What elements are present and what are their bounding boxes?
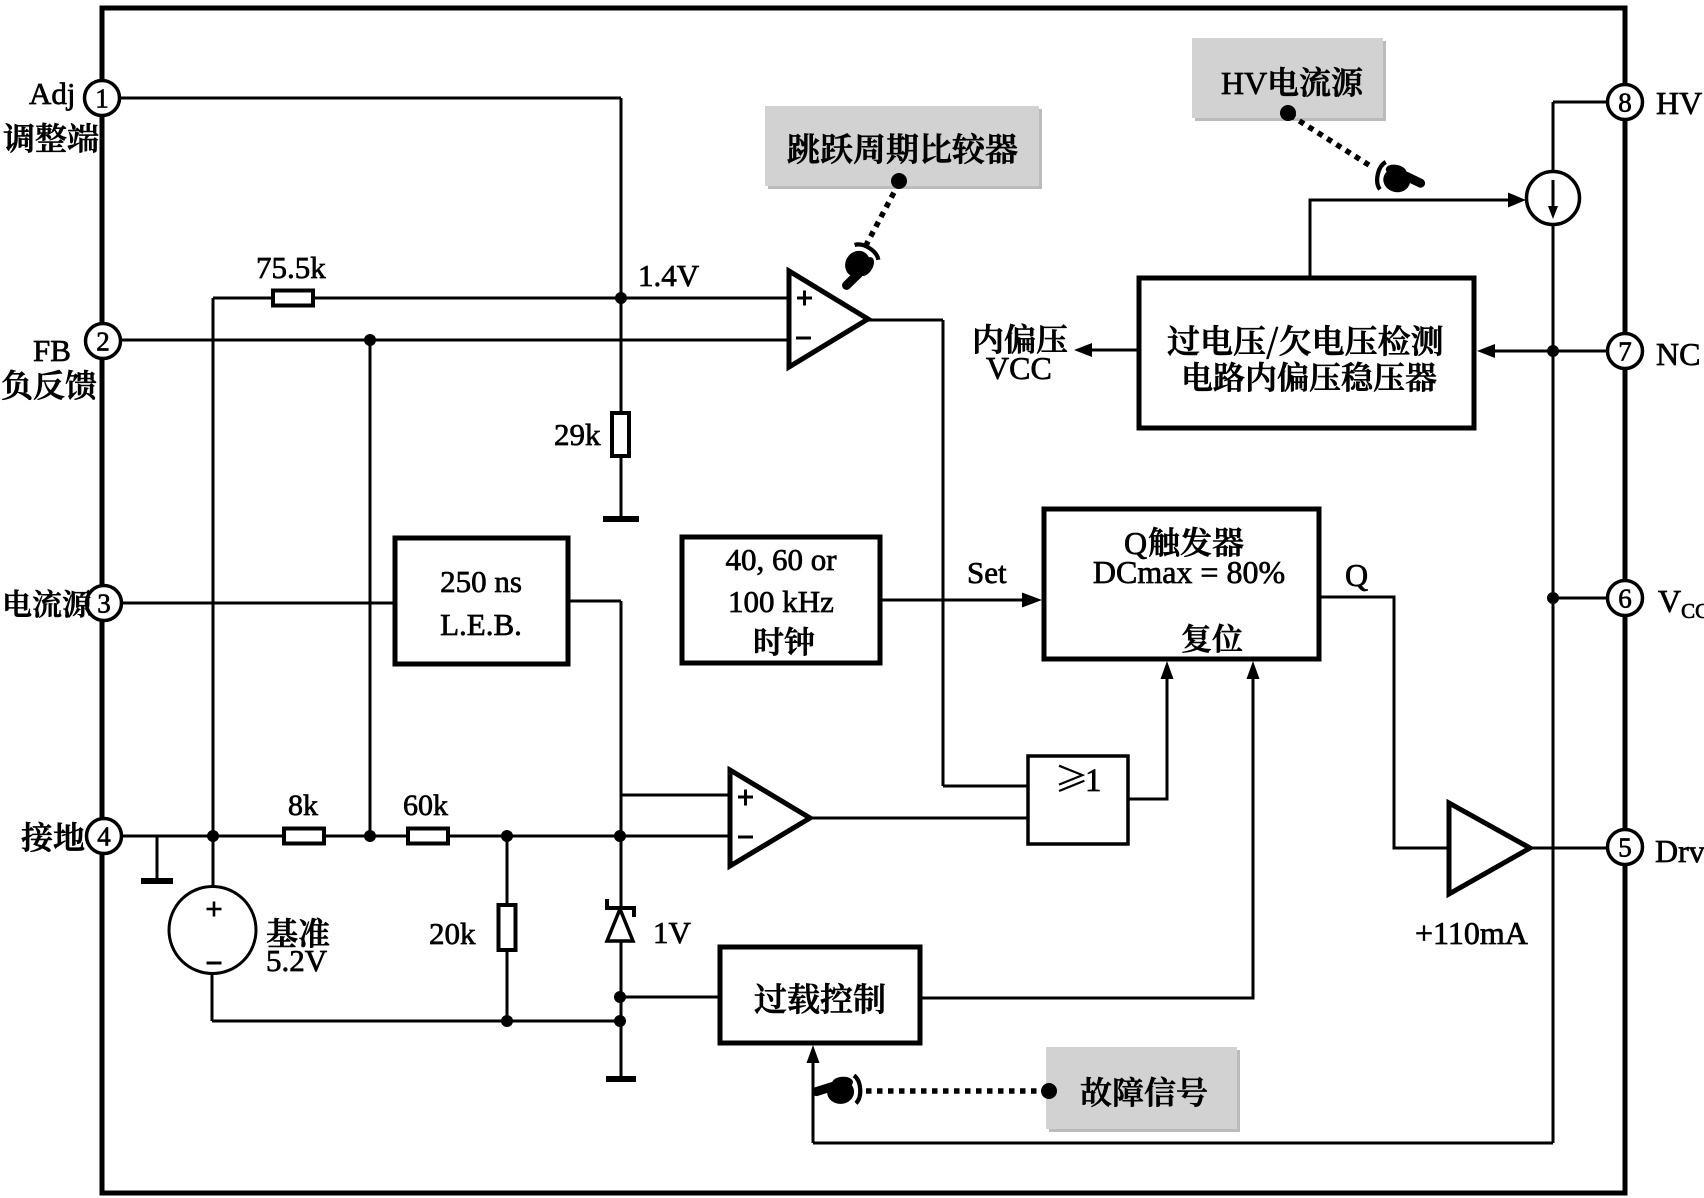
wire pin2 FB to comparator inverting input — [120, 339, 789, 342]
resistor 75.5k — [273, 291, 313, 306]
wire 1.4V node down to 29k resistor — [620, 298, 623, 413]
wire pin1 Adj to top-right corner — [120, 97, 621, 100]
svg-text:250 ns: 250 ns — [440, 564, 522, 599]
svg-text:75.5k: 75.5k — [256, 250, 326, 285]
wire lower comparator output to OR gate — [810, 817, 1028, 820]
svg-text:8k: 8k — [288, 789, 318, 822]
wire latch Q output to driver — [1319, 597, 1449, 848]
label 内偏压 — [975, 324, 1067, 354]
svg-text:DCmax = 80%: DCmax = 80% — [1093, 554, 1285, 590]
junction 20k bottom rail — [501, 1015, 513, 1027]
pin 2 FB — [86, 324, 121, 359]
wire pin4 ground stub — [156, 836, 159, 878]
hand icon pointing at HV current source — [1375, 161, 1424, 197]
junction 8k-60k node — [364, 830, 376, 842]
ground at pin4 — [156, 870, 159, 881]
wire bottom rail from 5.2V source to zener branch — [212, 1020, 621, 1023]
wire driver output to pin5 Drv — [1530, 847, 1607, 850]
label 调整端 — [4, 123, 98, 153]
junction 60k/20k node — [501, 830, 513, 842]
arrowhead Set into latch — [1022, 593, 1042, 608]
current source HV (circle with down arrow) — [1527, 172, 1580, 225]
block overload control 过载控制 — [720, 947, 920, 1043]
arrowhead into HV current source — [1508, 193, 1526, 208]
callout box 跳跃周期比较器 — [768, 109, 1042, 189]
wire zener anode down to ground — [620, 941, 623, 1076]
svg-text:3: 3 — [97, 589, 111, 619]
wire 29k resistor to ground — [620, 456, 623, 517]
svg-text:60k: 60k — [403, 789, 448, 822]
wire node to 20k resistor — [506, 836, 509, 905]
wire to lower comparator non-inverting input — [621, 794, 730, 797]
arrowhead into OVP block right side — [1477, 344, 1495, 358]
callout dotted leader to HV current source — [1290, 115, 1372, 167]
svg-text:100 kHz: 100 kHz — [728, 584, 834, 619]
svg-text:VCC: VCC — [986, 350, 1052, 386]
wire vertical x621 L.E.B. output down to zener — [620, 601, 623, 906]
label 触发器 (flip-flop) — [1149, 527, 1243, 557]
wire fault signal line — [813, 1142, 1553, 1145]
svg-text:1.4V: 1.4V — [638, 258, 700, 293]
label 过电压/欠电压检测 — [1168, 325, 1442, 359]
wire vertical pin1 down to 1.4V node — [620, 98, 623, 298]
wire overload-control output up to latch reset — [920, 676, 1253, 998]
svg-text:Q: Q — [1345, 557, 1368, 593]
junction CS sense node at zener — [614, 830, 626, 842]
wire clock Set signal to latch — [880, 599, 1025, 602]
svg-text:40, 60 or: 40, 60 or — [725, 542, 837, 577]
hand icon pointing at fault arrow — [816, 1075, 862, 1106]
label 电路内偏压稳压器 — [1185, 362, 1437, 392]
wire pin4 row through 8k resistor — [121, 835, 324, 838]
hand icon pointing at skip comparator — [834, 241, 881, 293]
callout dot 跳跃周期比较器 — [891, 173, 907, 189]
resistor 29k — [612, 413, 629, 456]
OR gate >=1 — [1028, 756, 1128, 844]
voltage source 5.2V reference — [169, 887, 256, 974]
svg-text:4: 4 — [97, 822, 111, 852]
arrowhead overload output into latch reset — [1247, 661, 1260, 679]
block 250ns L.E.B. — [395, 538, 568, 664]
wire pin8 down to HV current source — [1552, 102, 1555, 172]
arrowhead internal bias VCC — [1074, 343, 1092, 357]
callout box HV电流源 — [1195, 41, 1386, 121]
svg-text:29k: 29k — [554, 417, 601, 452]
svg-text:L.E.B.: L.E.B. — [440, 607, 522, 642]
block Q latch DCmax=80% — [1044, 509, 1319, 659]
svg-text:1: 1 — [95, 84, 109, 114]
driver amplifier +110mA — [1449, 803, 1530, 894]
junction node 1.4V — [615, 292, 627, 304]
svg-text:HV: HV — [1221, 65, 1267, 101]
wire into OR gate upper input — [943, 785, 1028, 788]
svg-text:5.2V: 5.2V — [266, 943, 328, 978]
wire 1.4V node to comparator non-inverting input — [621, 297, 789, 300]
wire skip comparator output — [868, 319, 943, 322]
svg-text:HV: HV — [1656, 85, 1702, 121]
pin 5 Drv — [1608, 830, 1643, 865]
wire vertical from FB node down to 8k/60k node — [369, 340, 372, 836]
wire Vcc rail to pin6 — [1553, 597, 1607, 600]
callout dot HV电流源 — [1280, 105, 1296, 121]
label 电流源 pin3 — [5, 589, 91, 617]
ground below zener — [620, 1070, 623, 1079]
svg-text:Adj: Adj — [29, 76, 76, 111]
label 时钟 (clock) — [755, 627, 814, 656]
junction left rail / 8k — [207, 830, 219, 842]
svg-text:2: 2 — [96, 327, 110, 357]
arrowhead fault signal into overload control — [807, 1045, 820, 1063]
ground below 29k — [620, 456, 623, 519]
wire pin8 HV stub — [1553, 101, 1607, 104]
wire OR gate output up to latch reset — [1128, 676, 1167, 799]
wire 8k to 60k to lower comparator inverting input — [324, 835, 730, 838]
wire 75.5k row to 1.4V node — [213, 297, 621, 300]
junction Vcc rail at pin6 — [1547, 592, 1559, 604]
pin 7 NC — [1608, 334, 1643, 369]
block OVP/UVP detection and internal bias regulator — [1139, 278, 1474, 428]
label 负反馈 — [2, 370, 96, 400]
svg-text:Set: Set — [967, 555, 1007, 590]
wire pin3 to L.E.B. block — [121, 602, 395, 605]
pin 6 Vcc — [1608, 581, 1643, 616]
zener diode 1V — [607, 899, 634, 917]
svg-text:1V: 1V — [653, 915, 692, 950]
wire node to OVP block — [1494, 350, 1553, 353]
wire OVP block output to internal VCC — [1092, 349, 1139, 352]
junction zener anode / overload input — [614, 991, 626, 1003]
callout box 故障信号 — [1049, 1050, 1240, 1132]
svg-text:6: 6 — [1618, 584, 1632, 614]
label 复位 (reset) — [1182, 624, 1242, 653]
svg-text:FB: FB — [33, 333, 71, 368]
wire L.E.B. output — [568, 600, 621, 603]
junction Vcc rail at pin7 row — [1547, 345, 1559, 357]
wire startup source feed to HV current source — [1310, 200, 1508, 278]
pin 3 current source — [87, 586, 122, 621]
wire 5.2V source bottom stub — [211, 888, 214, 1021]
svg-text:1: 1 — [1085, 763, 1102, 799]
pin 8 HV — [1608, 85, 1643, 120]
label 跳跃周期比较器 — [788, 133, 1018, 164]
resistor 60k — [408, 829, 448, 844]
label 基准 (reference) — [267, 918, 329, 948]
resistor 8k — [284, 829, 324, 844]
callout dotted leader fault signal — [866, 1088, 1043, 1094]
label 故障信号 — [1081, 1077, 1207, 1107]
callout dot 故障信号 — [1041, 1083, 1057, 1099]
op-amp U2 current-sense comparator — [730, 770, 810, 866]
label 接地 — [22, 822, 84, 852]
wire HV current source down the Vcc rail — [1552, 224, 1555, 1143]
op-amp U1 skip-cycle comparator — [789, 271, 868, 367]
wire vertical left rail x213 down to 5.2V source — [212, 298, 215, 888]
svg-text:Drv: Drv — [1655, 833, 1704, 869]
wire 20k resistor to bottom rail — [506, 950, 509, 1021]
resistor 20k — [499, 905, 516, 950]
callout dotted leader to skip comparator — [864, 183, 899, 249]
wire zener node to overload-control input — [621, 996, 720, 999]
label >= symbol — [1059, 765, 1084, 791]
junction FB node — [364, 334, 376, 346]
wire fault signal up to overload control — [812, 1060, 815, 1143]
svg-text:+110mA: +110mA — [1415, 915, 1528, 951]
wire vertical skip comparator output down — [942, 320, 945, 786]
junction bottom rail / zener branch — [614, 1015, 626, 1027]
svg-text:5: 5 — [1618, 833, 1632, 863]
wire node to pin7 NC — [1553, 350, 1607, 353]
svg-text:7: 7 — [1618, 337, 1632, 367]
svg-text:20k: 20k — [429, 916, 476, 951]
svg-text:8: 8 — [1618, 88, 1632, 118]
label 电流源 of HV电流源 — [1271, 67, 1362, 97]
svg-text:NC: NC — [1656, 336, 1700, 372]
pin 1 Adj — [85, 81, 120, 116]
block clock 40/60/100kHz — [682, 537, 880, 663]
arrowhead OR output into latch reset — [1161, 661, 1174, 679]
pin 4 ground — [87, 819, 122, 854]
label 过载控制 — [755, 983, 885, 1014]
